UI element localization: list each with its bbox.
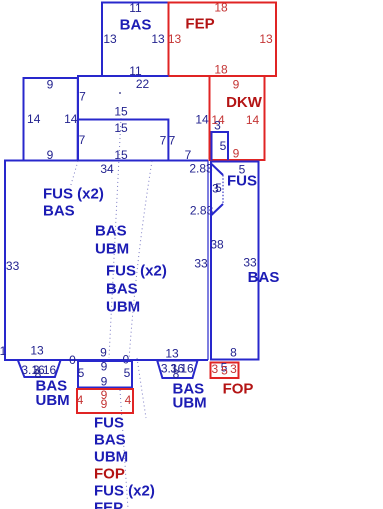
svg-text:1: 1 <box>0 344 7 358</box>
svg-text:15: 15 <box>114 104 128 118</box>
door hexagon slants <box>212 164 224 215</box>
svg-text:UBM: UBM <box>36 392 70 409</box>
svg-text:9: 9 <box>233 77 240 91</box>
svg-text:14: 14 <box>246 113 260 127</box>
svg-text:5: 5 <box>124 366 131 380</box>
svg-text:UBM: UBM <box>95 240 129 257</box>
svg-text:9: 9 <box>47 77 54 91</box>
svg-text:FUS (x2): FUS (x2) <box>94 482 155 499</box>
right column zone BAS <box>211 162 259 360</box>
svg-text:13: 13 <box>165 346 179 360</box>
svg-text:18: 18 <box>214 1 228 15</box>
dotted leader line 0 <box>70 161 78 188</box>
svg-text:FOP: FOP <box>94 465 125 482</box>
svg-text:5: 5 <box>220 139 227 153</box>
svg-text:0: 0 <box>122 352 129 366</box>
svg-text:4: 4 <box>125 393 132 407</box>
svg-text:UBM: UBM <box>94 448 128 465</box>
svg-text:7: 7 <box>79 133 86 147</box>
svg-text:33: 33 <box>243 255 257 269</box>
svg-text:8: 8 <box>173 367 180 381</box>
svg-text:3: 3 <box>211 362 218 376</box>
svg-text:4: 4 <box>77 393 84 407</box>
middle column blue box <box>78 361 132 388</box>
svg-text:9: 9 <box>101 374 108 388</box>
svg-text:FUS (x2): FUS (x2) <box>43 185 104 202</box>
zone 15 rectangle <box>78 120 169 161</box>
main zone rectangle <box>5 161 208 361</box>
trapezoid 1 <box>18 360 61 377</box>
svg-text:9: 9 <box>233 146 240 160</box>
dotted leader line 1 <box>109 118 121 358</box>
svg-text:7: 7 <box>79 89 86 103</box>
zone DKW rectangle <box>210 76 265 160</box>
svg-text:9: 9 <box>101 359 108 373</box>
svg-text:UBM: UBM <box>173 394 207 411</box>
svg-text:DKW: DKW <box>226 94 263 111</box>
zone BAS top rectangle <box>102 3 169 77</box>
dotted leader line 3 <box>120 390 128 509</box>
svg-text:13: 13 <box>151 32 165 46</box>
svg-text:2.83: 2.83 <box>190 203 214 217</box>
svg-text:5: 5 <box>215 181 222 195</box>
middle column red box <box>77 389 133 413</box>
svg-text:9: 9 <box>100 345 107 359</box>
svg-text:UBM: UBM <box>106 298 140 315</box>
stray dot <box>119 92 121 94</box>
svg-text:38: 38 <box>210 237 224 251</box>
svg-text:0: 0 <box>69 353 76 367</box>
svg-text:14: 14 <box>27 112 41 126</box>
svg-text:BAS: BAS <box>94 431 126 448</box>
svg-text:BAS: BAS <box>95 222 127 239</box>
dotted leader line 4 <box>137 358 146 418</box>
svg-text:3: 3 <box>230 362 237 376</box>
svg-text:14: 14 <box>64 112 78 126</box>
svg-text:2.83: 2.83 <box>189 161 213 175</box>
svg-text:9: 9 <box>101 397 108 411</box>
svg-text:33: 33 <box>6 259 20 273</box>
svg-text:5: 5 <box>221 364 228 378</box>
svg-text:8: 8 <box>230 345 237 359</box>
svg-text:13: 13 <box>30 343 44 357</box>
FOP red box <box>211 363 239 379</box>
window rectangle inside DKW <box>212 132 229 160</box>
svg-text:22: 22 <box>136 77 150 91</box>
svg-text:BAS: BAS <box>106 280 138 297</box>
svg-text:7: 7 <box>169 133 176 147</box>
trapezoid 2 <box>157 361 197 379</box>
svg-text:FUS: FUS <box>227 172 257 189</box>
svg-text:7: 7 <box>160 133 167 147</box>
svg-text:FUS: FUS <box>94 414 124 431</box>
svg-text:3: 3 <box>214 118 221 132</box>
svg-text:FOP: FOP <box>223 380 254 397</box>
svg-text:34: 34 <box>100 162 114 176</box>
zone 22 top edge and left edge <box>78 76 169 161</box>
svg-text:FEP: FEP <box>185 15 214 32</box>
svg-text:11: 11 <box>129 1 142 15</box>
svg-text:BAS: BAS <box>120 16 152 33</box>
svg-text:FEP: FEP <box>94 499 123 509</box>
svg-text:14: 14 <box>195 112 209 126</box>
dotted leader line 2 <box>129 161 152 360</box>
svg-text:13: 13 <box>168 32 182 46</box>
svg-text:BAS: BAS <box>248 269 280 286</box>
door hexagon dotted right edge <box>222 175 224 204</box>
svg-text:13: 13 <box>103 32 117 46</box>
svg-text:33: 33 <box>194 256 208 270</box>
svg-text:18: 18 <box>214 62 228 76</box>
svg-text:5: 5 <box>78 366 85 380</box>
svg-text:13: 13 <box>259 32 273 46</box>
zone FEP rectangle <box>169 3 277 77</box>
zone left 9x14 rectangle <box>24 78 78 161</box>
svg-text:BAS: BAS <box>43 202 75 219</box>
